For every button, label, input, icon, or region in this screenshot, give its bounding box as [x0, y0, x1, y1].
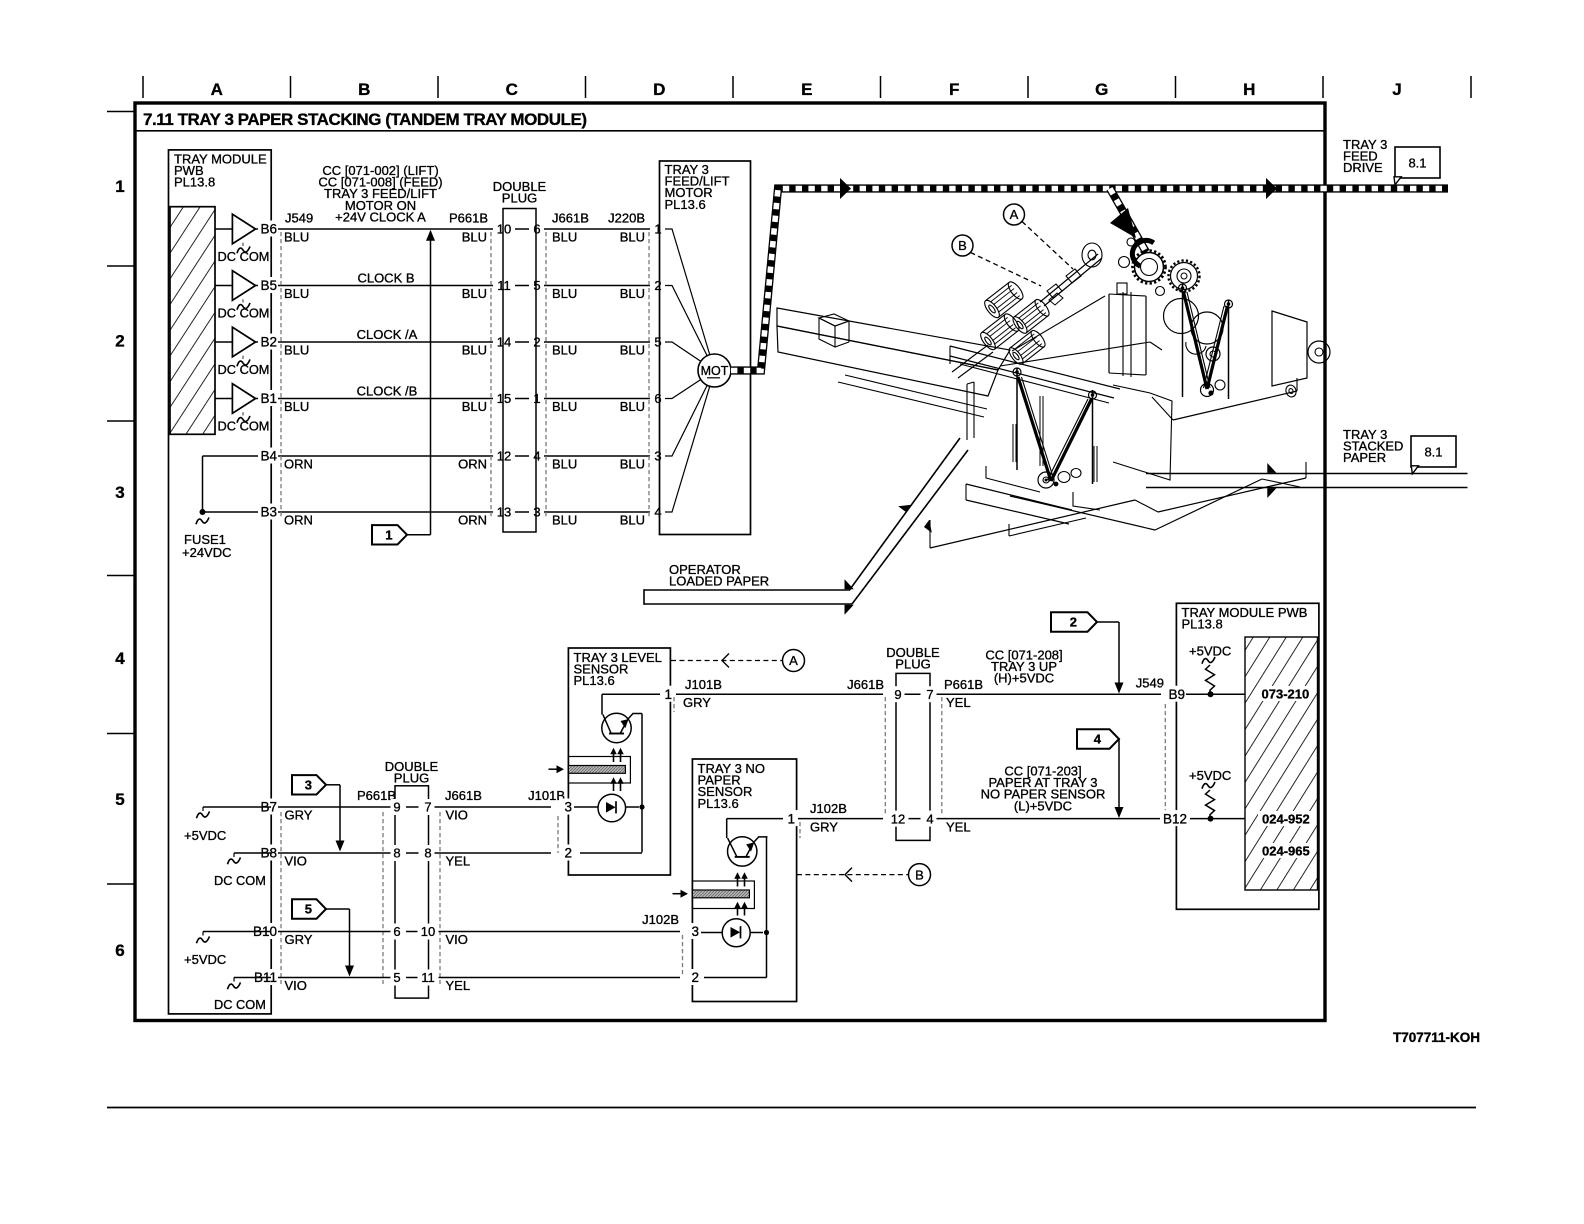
svg-text:J661B: J661B	[445, 788, 482, 803]
svg-text:1: 1	[533, 391, 540, 406]
svg-text:J549: J549	[285, 211, 313, 226]
svg-text:+24V CLOCK A: +24V CLOCK A	[335, 209, 426, 224]
svg-text:P661B: P661B	[944, 677, 983, 692]
svg-text:DRIVE: DRIVE	[1343, 160, 1383, 175]
svg-text:PL13.8: PL13.8	[1182, 617, 1223, 632]
svg-text:10: 10	[497, 222, 511, 237]
svg-text:BLU: BLU	[620, 286, 645, 301]
svg-text:VIO: VIO	[446, 932, 468, 947]
svg-text:B3: B3	[260, 505, 277, 520]
svg-text:3: 3	[533, 505, 540, 520]
svg-text:BLU: BLU	[462, 399, 487, 414]
svg-text:8: 8	[424, 846, 431, 861]
svg-text:13: 13	[497, 505, 511, 520]
svg-text:BLU: BLU	[620, 399, 645, 414]
svg-text:4: 4	[654, 505, 661, 520]
svg-text:1: 1	[787, 811, 795, 826]
svg-text:ORN: ORN	[284, 513, 313, 528]
svg-text:024-965: 024-965	[1262, 844, 1310, 859]
svg-text:J661B: J661B	[847, 677, 884, 692]
svg-text:5: 5	[393, 970, 400, 985]
svg-text:PL13.6: PL13.6	[665, 197, 706, 212]
svg-text:PL13.8: PL13.8	[174, 175, 215, 190]
svg-text:G: G	[1095, 80, 1108, 99]
svg-text:BLU: BLU	[552, 230, 577, 245]
svg-text:(H)+5VDC: (H)+5VDC	[994, 671, 1054, 686]
svg-text:6: 6	[654, 391, 661, 406]
svg-text:BLU: BLU	[552, 457, 577, 472]
svg-text:3: 3	[305, 778, 312, 793]
svg-text:8: 8	[393, 846, 400, 861]
svg-text:7: 7	[424, 800, 431, 815]
svg-text:14: 14	[497, 335, 511, 350]
svg-text:DC COM: DC COM	[218, 362, 270, 377]
svg-text:2: 2	[533, 335, 540, 350]
svg-text:P661B: P661B	[449, 211, 488, 226]
svg-text:12: 12	[497, 449, 511, 464]
svg-text:+5VDC: +5VDC	[184, 952, 226, 967]
svg-text:DC COM: DC COM	[218, 418, 270, 433]
svg-text:CLOCK /A: CLOCK /A	[357, 327, 418, 342]
svg-text:3: 3	[654, 449, 661, 464]
svg-text:ORN: ORN	[458, 513, 487, 528]
svg-text:J661B: J661B	[552, 211, 589, 226]
svg-text:DC COM: DC COM	[214, 997, 266, 1012]
svg-text:J102B: J102B	[810, 801, 847, 816]
svg-text:5: 5	[654, 335, 661, 350]
svg-text:9: 9	[894, 687, 901, 702]
svg-text:024-952: 024-952	[1262, 812, 1310, 827]
svg-text:4: 4	[115, 649, 125, 668]
svg-text:+5VDC: +5VDC	[1189, 768, 1231, 783]
svg-text:ORN: ORN	[458, 457, 487, 472]
svg-text:11: 11	[497, 278, 511, 293]
svg-text:B9: B9	[1168, 687, 1185, 702]
svg-text:VIO: VIO	[285, 854, 307, 869]
svg-text:E: E	[801, 80, 812, 99]
svg-text:B1: B1	[260, 391, 277, 406]
svg-text:BLU: BLU	[620, 513, 645, 528]
svg-text:9: 9	[393, 800, 400, 815]
svg-text:B: B	[958, 238, 967, 253]
svg-text:(L)+5VDC: (L)+5VDC	[1014, 798, 1072, 813]
svg-text:P661B: P661B	[357, 788, 396, 803]
svg-text:YEL: YEL	[946, 819, 971, 834]
svg-text:J549: J549	[1136, 676, 1164, 691]
svg-text:DC COM: DC COM	[218, 249, 270, 264]
svg-text:3: 3	[691, 924, 699, 939]
svg-text:BLU: BLU	[552, 286, 577, 301]
svg-text:2: 2	[115, 332, 124, 351]
svg-text:BLU: BLU	[462, 286, 487, 301]
svg-text:5: 5	[305, 902, 312, 917]
svg-text:5: 5	[533, 278, 540, 293]
svg-text:2: 2	[564, 846, 572, 861]
svg-text:LOADED PAPER: LOADED PAPER	[669, 574, 769, 589]
svg-text:12: 12	[891, 811, 905, 826]
svg-text:T707711-KOH: T707711-KOH	[1393, 1030, 1480, 1045]
svg-text:+5VDC: +5VDC	[1189, 644, 1231, 659]
svg-text:GRY: GRY	[285, 932, 313, 947]
svg-text:4: 4	[533, 449, 540, 464]
svg-text:7: 7	[926, 687, 933, 702]
svg-text:8.1: 8.1	[1408, 156, 1426, 171]
svg-text:3: 3	[564, 800, 572, 815]
svg-text:PL13.6: PL13.6	[698, 796, 739, 811]
svg-text:1: 1	[385, 528, 392, 543]
svg-text:B: B	[358, 80, 370, 99]
svg-text:BLU: BLU	[620, 457, 645, 472]
svg-text:BLU: BLU	[284, 399, 309, 414]
svg-text:1: 1	[664, 687, 672, 702]
svg-text:BLU: BLU	[284, 286, 309, 301]
svg-text:BLU: BLU	[284, 230, 309, 245]
svg-text:DC COM: DC COM	[218, 305, 270, 320]
svg-text:A: A	[211, 80, 223, 99]
svg-text:BLU: BLU	[462, 230, 487, 245]
svg-text:+24VDC: +24VDC	[182, 545, 232, 560]
svg-text:A: A	[789, 653, 798, 668]
svg-text:YEL: YEL	[946, 695, 971, 710]
svg-text:4: 4	[1094, 732, 1102, 747]
svg-text:J220B: J220B	[608, 211, 645, 226]
svg-text:VIO: VIO	[285, 978, 307, 993]
svg-text:6: 6	[533, 222, 540, 237]
svg-text:PL13.6: PL13.6	[574, 673, 615, 688]
svg-text:2: 2	[1070, 615, 1077, 630]
svg-text:BLU: BLU	[620, 230, 645, 245]
svg-text:1: 1	[115, 177, 124, 196]
svg-text:J101B: J101B	[685, 677, 722, 692]
svg-text:PLUG: PLUG	[502, 191, 537, 206]
svg-text:MOT: MOT	[701, 364, 729, 378]
svg-text:B4: B4	[260, 449, 277, 464]
svg-text:10: 10	[421, 924, 435, 939]
svg-text:3: 3	[115, 483, 124, 502]
svg-text:PLUG: PLUG	[394, 771, 429, 786]
svg-text:ORN: ORN	[284, 457, 313, 472]
svg-text:PLUG: PLUG	[895, 657, 930, 672]
svg-text:C: C	[506, 80, 518, 99]
svg-text:BLU: BLU	[552, 399, 577, 414]
svg-text:1: 1	[654, 222, 661, 237]
svg-text:A: A	[1010, 207, 1019, 222]
svg-text:DC COM: DC COM	[214, 873, 266, 888]
svg-text:11: 11	[421, 970, 435, 985]
svg-text:VIO: VIO	[446, 808, 468, 823]
svg-text:B5: B5	[260, 278, 277, 293]
svg-text:7.11 TRAY 3 PAPER STACKING (TA: 7.11 TRAY 3 PAPER STACKING (TANDEM TRAY …	[143, 110, 587, 129]
svg-text:8.1: 8.1	[1424, 445, 1442, 460]
svg-text:B2: B2	[260, 335, 277, 350]
svg-text:15: 15	[497, 391, 511, 406]
svg-text:2: 2	[654, 278, 661, 293]
svg-text:BLU: BLU	[462, 343, 487, 358]
svg-text:J: J	[1392, 80, 1401, 99]
svg-text:GRY: GRY	[810, 819, 838, 834]
svg-text:6: 6	[393, 924, 400, 939]
svg-text:PAPER: PAPER	[1343, 450, 1386, 465]
svg-text:BLU: BLU	[284, 343, 309, 358]
svg-text:GRY: GRY	[683, 695, 711, 710]
svg-text:4: 4	[926, 811, 933, 826]
svg-text:D: D	[653, 80, 665, 99]
svg-text:BLU: BLU	[552, 343, 577, 358]
svg-text:BLU: BLU	[620, 343, 645, 358]
svg-text:B: B	[915, 867, 924, 882]
svg-text:CLOCK /B: CLOCK /B	[357, 384, 418, 399]
svg-text:5: 5	[115, 790, 124, 809]
svg-text:J102B: J102B	[642, 912, 679, 927]
svg-text:H: H	[1243, 80, 1255, 99]
svg-text:YEL: YEL	[446, 854, 471, 869]
svg-text:CLOCK B: CLOCK B	[357, 271, 414, 286]
svg-text:YEL: YEL	[446, 978, 471, 993]
svg-text:B6: B6	[260, 222, 277, 237]
svg-text:2: 2	[691, 970, 699, 985]
svg-text:GRY: GRY	[285, 808, 313, 823]
svg-text:+5VDC: +5VDC	[184, 828, 226, 843]
svg-text:F: F	[949, 80, 959, 99]
svg-text:BLU: BLU	[552, 513, 577, 528]
svg-text:6: 6	[115, 941, 124, 960]
svg-text:B12: B12	[1163, 811, 1187, 826]
svg-text:073-210: 073-210	[1262, 687, 1310, 702]
